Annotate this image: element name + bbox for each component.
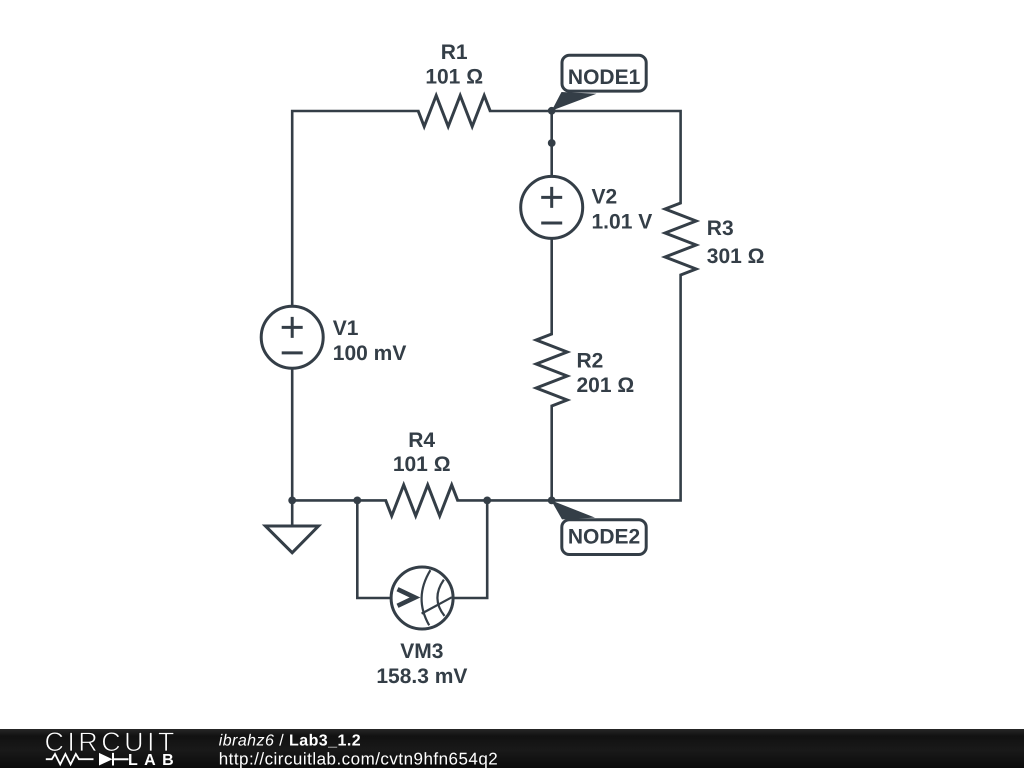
wire R3 to bottom right corner xyxy=(552,275,681,500)
junction node VM3 right tap xyxy=(483,497,491,505)
svg-text:NODE2: NODE2 xyxy=(568,526,640,549)
svg-text:V1: V1 xyxy=(333,317,359,340)
svg-text:R2: R2 xyxy=(577,350,604,373)
resistor R1 xyxy=(418,96,490,127)
svg-text:201 Ω: 201 Ω xyxy=(577,374,635,397)
footer CircuitLab logo xyxy=(45,727,181,768)
resistor R4 xyxy=(386,485,458,516)
junction node at NODE1 xyxy=(548,107,556,115)
footer bar xyxy=(0,729,1024,768)
svg-text:101 Ω: 101 Ω xyxy=(425,66,483,89)
wire top from V1 to R1 xyxy=(292,111,418,306)
junction node V2 top wire xyxy=(548,139,556,147)
wire ground stem xyxy=(291,500,294,526)
resistor R2 xyxy=(536,334,567,406)
junction node VM3 left tap xyxy=(353,497,361,505)
wire VM3 right branch xyxy=(454,500,487,598)
wire top from R1 to NODE1 junction and right corner xyxy=(490,111,680,203)
voltmeter VM3 xyxy=(391,567,453,629)
svg-text:R4: R4 xyxy=(408,429,435,452)
wire R4 to NODE2 junction xyxy=(458,499,552,502)
svg-text:R3: R3 xyxy=(707,217,734,240)
svg-text:301 Ω: 301 Ω xyxy=(707,245,765,268)
svg-text:http://circuitlab.com/cvtn9hfn: http://circuitlab.com/cvtn9hfn654q2 xyxy=(219,749,499,768)
junction node at NODE2 xyxy=(548,497,556,505)
svg-text:R1: R1 xyxy=(441,41,468,64)
voltage source V2 xyxy=(521,176,583,238)
wire NODE1 junction to V2 top xyxy=(550,111,553,176)
svg-text:101 Ω: 101 Ω xyxy=(393,453,451,476)
svg-text:1.01 V: 1.01 V xyxy=(592,211,653,234)
junction node bottom left xyxy=(288,497,296,505)
svg-text:ibrahz6 / Lab3_1.2: ibrahz6 / Lab3_1.2 xyxy=(219,732,361,749)
svg-text:158.3 mV: 158.3 mV xyxy=(376,665,467,688)
wire VM3 left branch xyxy=(357,500,390,598)
wire V2 bottom to R2 xyxy=(550,239,553,334)
node NODE1 callout xyxy=(552,55,647,110)
svg-text:100 mV: 100 mV xyxy=(333,342,407,365)
svg-text:V2: V2 xyxy=(592,185,618,208)
svg-text:NODE1: NODE1 xyxy=(568,66,641,89)
wire bottom from V1 to R4 xyxy=(292,369,386,500)
svg-text:LAB: LAB xyxy=(128,752,180,768)
node NODE2 callout xyxy=(551,500,646,554)
svg-text:VM3: VM3 xyxy=(400,640,443,663)
ground xyxy=(265,526,318,553)
resistor R3 xyxy=(665,203,696,275)
wire R2 to bottom NODE2 junction xyxy=(550,406,553,500)
voltage source V1 xyxy=(261,306,323,368)
